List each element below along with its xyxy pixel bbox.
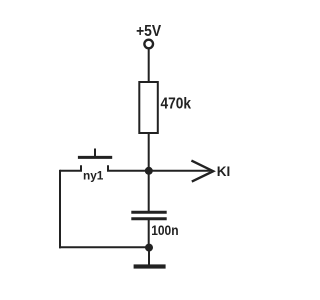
arrowhead of output KI (191, 161, 213, 182)
pushbutton ny1 actuator stem (94, 149, 96, 158)
svg-text:ny1: ny1 (83, 171, 104, 183)
wire from +5V terminal to resistor R top (148, 49, 150, 82)
svg-text:KI: KI (217, 164, 231, 179)
wire arrow shaft to output (149, 170, 210, 172)
capacitor 100n bottom plate (131, 217, 166, 220)
svg-text:100n: 100n (151, 222, 178, 238)
capacitor 100n top plate (131, 211, 166, 214)
svg-text:+5V: +5V (136, 23, 162, 40)
pushbutton ny1 right contact wire (108, 165, 149, 171)
wire from capacitor bottom plate to ground junction (148, 220, 150, 248)
wire bottom return to ground junction (59, 246, 149, 248)
resistor 470k body (139, 82, 158, 133)
pushbutton ny1 left contact wire (60, 165, 81, 171)
node B junction dot (capacitor/switch-return/ground) (145, 244, 153, 252)
wire left vertical return of pushbutton (59, 170, 61, 249)
pushbutton ny1 actuator bar (78, 156, 112, 159)
svg-text:470k: 470k (161, 95, 192, 112)
wire junction to ground symbol (148, 247, 150, 264)
node +5V terminal circle (144, 40, 153, 49)
wire from resistor bottom to capacitor top plate (148, 133, 150, 212)
node A junction dot (resistor/switch/arrow/capacitor) (145, 167, 153, 175)
ground symbol bar (134, 264, 166, 268)
